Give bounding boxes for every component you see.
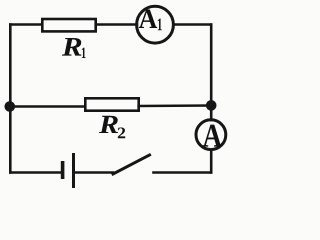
ammeter A body [196, 120, 226, 150]
node junction left [5, 101, 16, 112]
wire A1 to top-right corner [174, 23, 212, 26]
label R1 letter R [62, 38, 82, 56]
ammeter A1 body [137, 6, 174, 43]
wire bottom left segment [10, 171, 61, 174]
label R2 subscript 2 [118, 128, 125, 139]
wire battery to switch [75, 171, 114, 174]
battery B positive plate (long) [72, 153, 75, 188]
label A letter A [203, 125, 222, 147]
wire ammeter A to bottom-right corner [210, 150, 213, 173]
label R1 subscript 1 [82, 48, 86, 58]
battery B negative plate (short) [61, 161, 65, 179]
wire middle left segment [10, 105, 85, 108]
label A1 letter A [139, 10, 157, 28]
switch S blade [113, 155, 150, 174]
node junction right [206, 100, 217, 111]
wire right vertical upper [210, 25, 213, 106]
label R2 letter R [99, 116, 118, 133]
wire left vertical [9, 25, 12, 173]
wire bottom right segment (switch right contact) [154, 171, 212, 174]
wire R1 to ammeter A1 [96, 23, 137, 26]
resistor R2 [85, 98, 138, 110]
wire middle right segment [139, 104, 212, 107]
wire junction to ammeter A [210, 106, 213, 121]
label A1 subscript 1 [158, 18, 162, 30]
wire top left segment [10, 23, 42, 26]
resistor R1 [42, 19, 95, 31]
